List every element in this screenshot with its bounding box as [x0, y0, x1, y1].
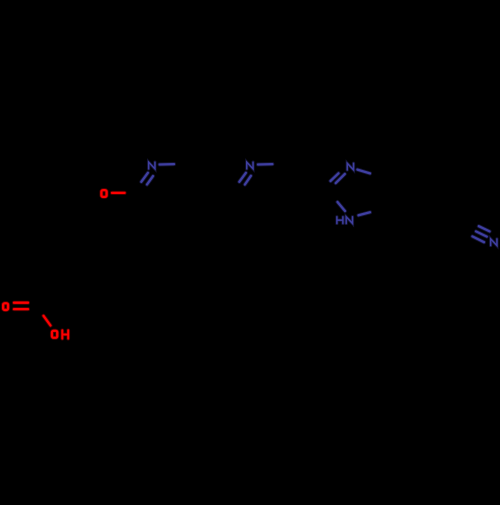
wire: pyridine2 N-C6 bond (blue half): [258, 162, 272, 166]
node HN (benzimidazole N1-H label): H glyph: [337, 217, 343, 224]
node HN (benzimidazole N1-H label): N glyph: [346, 217, 352, 224]
wire: benzimidazole N1H-C7a bond (blue half): [359, 212, 371, 215]
wire: nitrile triple bond lower line: [472, 236, 484, 242]
node N (benzimidazole N3 label): [347, 163, 353, 170]
wire: benzimidazole N3-C3a bond (blue half): [357, 170, 370, 174]
node OH (carboxylic acid hydroxyl label): O glyph: [52, 331, 57, 338]
wire: pyridine2 N=C2 double bond main line: [239, 173, 246, 182]
wire: ether O to pyridine C2 bond (red half): [112, 191, 125, 195]
wire: carboxylic C=O double bond lower line: [14, 307, 28, 311]
node N (nitrile nitrogen label): [491, 239, 497, 246]
wire: pyridine1 N=C2 double bond main line: [141, 173, 148, 182]
wire: pyridine1 N-C6 bond (blue half): [160, 162, 174, 166]
wire: pyridine1 N=C2 double bond inner line: [147, 176, 153, 184]
wire: benzimidazole N1H-C2 bond (blue half): [338, 202, 346, 211]
node O (ether oxygen label): [101, 190, 106, 197]
wire: pyridine2 N=C2 double bond inner line: [245, 176, 251, 185]
node N (pyridine2 nitrogen label): [247, 162, 253, 169]
wire: C-OH bond (red half): [44, 316, 51, 326]
wire: carboxylic C=O double bond upper line: [14, 301, 28, 305]
node OH (carboxylic acid hydroxyl label): H glyph: [62, 330, 68, 338]
node N (pyridine1 nitrogen label): [149, 162, 155, 169]
wire: nitrile triple bond upper line: [479, 226, 490, 231]
wire: benzimidazole N3=C2 double bond outer line: [331, 173, 339, 181]
node O (carboxylic acid carbonyl oxygen label): [3, 303, 8, 310]
wire: nitrile triple bond middle line: [476, 231, 487, 236]
wire: benzimidazole N3=C2 double bond main line: [336, 174, 345, 183]
